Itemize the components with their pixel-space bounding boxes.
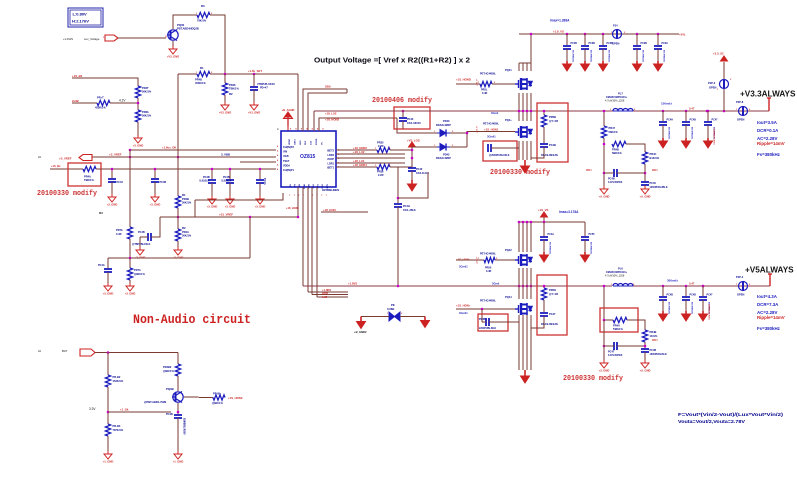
wire 1.8v_SET to IC pin: [297, 74, 299, 131]
svg-text:LDR2: LDR2: [327, 154, 334, 157]
svg-text:+1S_HON2: +1S_HON2: [228, 396, 243, 400]
svg-text:0.4R: 0.4R: [486, 270, 491, 273]
svg-text:PET.4C44D6L: PET.4C44D6L: [480, 253, 496, 256]
svg-text:B2MBLBL/R2.5: B2MBLBL/R2.5: [713, 129, 715, 145]
junction 5 cap PC4B x663: [662, 285, 665, 288]
ground left divider: [134, 135, 142, 143]
svg-text:+18_HON2: +18_HON2: [325, 118, 340, 122]
wire PR5B to PC4B: [543, 127, 545, 143]
svg-text:@BK/1%: @BK/1%: [163, 369, 174, 373]
wire x130 down: [129, 258, 131, 268]
wire stub PC43: [402, 111, 404, 117]
wire Q3B to PR-B4: [184, 396, 213, 399]
svg-text:PR4A: PR4A: [182, 230, 189, 234]
wire stub cap PC3B x585: [584, 34, 586, 45]
wire bus x531 seg1: [530, 63, 532, 71]
junction x130 y258: [129, 257, 132, 260]
power ground cap x658: [654, 61, 663, 71]
wire fuse right: [400, 316, 425, 318]
svg-text:4B 2MBLBL: 4B 2MBLBL: [608, 50, 611, 63]
svg-text:PR7b: PR7b: [116, 228, 123, 232]
ground PR-B3: [104, 451, 112, 459]
wire 3.3 fb mid: [603, 138, 605, 186]
wire rail +1.8 mid: [314, 110, 613, 112]
wire gate4 cap b: [489, 321, 519, 323]
wire y200 from IC: [195, 193, 283, 200]
capacitor PC4B2: [174, 415, 182, 418]
svg-text:56K/1%: 56K/1%: [142, 90, 152, 94]
wire y169 left: [50, 168, 83, 170]
wire fuse left: [361, 316, 389, 318]
svg-text:ISET2: ISET2: [327, 150, 335, 153]
svg-text:VIN: VIN: [283, 151, 287, 154]
power ground 5 cap x703: [699, 311, 708, 321]
junction PC4B b: [211, 168, 214, 171]
wire x398 lower: [397, 207, 399, 286]
wire PR-2b to ground: [137, 122, 139, 135]
wire rail +5 feed: [519, 221, 585, 223]
svg-text:R3: R3: [201, 4, 205, 8]
capacitor PC47 5rail x703: [699, 297, 707, 300]
svg-text:PC4H: PC4H: [403, 205, 410, 208]
svg-text:Ripple=14mV: Ripple=14mV: [757, 315, 785, 320]
wire bus LX: [317, 296, 348, 298]
wire stub 5 cap PC4B x686: [685, 286, 687, 296]
svg-text:EN: EN: [290, 184, 292, 187]
wire net +1.8vs_OK: [130, 149, 276, 151]
wire cap PC3B x585 down: [584, 49, 586, 61]
resistor PR7h: [127, 268, 132, 280]
svg-text:+A_GND: +A_GND: [640, 195, 651, 199]
svg-text:PR35: PR35: [377, 141, 384, 145]
wire RC upper stub: [543, 111, 545, 115]
svg-text:0.47: 0.47: [689, 107, 695, 111]
wire 3.3 cap PC4B down: [685, 125, 687, 138]
svg-text:4B 2MBLBL: 4B 2MBLBL: [691, 127, 694, 140]
wire PC4A b to ground: [259, 183, 261, 196]
resistor divider R2: [175, 229, 180, 241]
wire gate2: [467, 131, 515, 133]
svg-text:4.7uH/10%_1208: 4.7uH/10%_1208: [605, 99, 625, 102]
annotation box 20100406: [394, 107, 430, 129]
junction rail cap PC4B x567: [566, 33, 569, 36]
resistor PR4T: [135, 86, 140, 98]
wire stub cap PC3B x637: [636, 34, 638, 45]
wire fbh b: [617, 172, 645, 174]
svg-text:+18_HDR1: +18_HDR1: [353, 163, 367, 167]
wire 5 fb top: [603, 286, 605, 320]
wire stub cap PC4A 5feed: [543, 222, 545, 236]
svg-text:+1.8VS: +1.8VS: [348, 282, 357, 286]
wire 5 cap PC47 x703 down: [702, 300, 704, 311]
svg-text:PR46: PR46: [229, 83, 236, 87]
wire bus5 x527 seg2: [526, 268, 528, 299]
capacitor PC4H inline: [394, 204, 402, 207]
svg-text:2200PUBLISLK: 2200PUBLISLK: [479, 327, 497, 330]
wire gate3 a: [456, 259, 484, 261]
junction fb cap: [644, 172, 647, 175]
wire to cap PD47: [253, 74, 255, 86]
wire vertical x250: [249, 217, 251, 258]
wire stub cap PC4A b: [259, 169, 261, 179]
svg-text:PC4C: PC4C: [650, 182, 657, 185]
wire fb gnd b: [644, 185, 646, 186]
svg-text:PC4B: PC4B: [479, 318, 486, 321]
svg-text:+3_GND: +3_GND: [225, 205, 236, 209]
svg-text:PR7h: PR7h: [134, 268, 141, 272]
power ground cap PC4A 5feed: [540, 252, 549, 262]
svg-text:PQ44: PQ44: [505, 295, 512, 299]
svg-text:2A: 2A: [38, 156, 41, 159]
wire cap sense gnd stub: [139, 237, 141, 247]
ground PR7h: [126, 283, 134, 291]
svg-text:R2: R2: [182, 226, 186, 230]
svg-text:PR4B: PR4B: [650, 330, 657, 334]
wire VS_LOG column: [411, 147, 413, 167]
resistor PR30 2.2R: [377, 147, 390, 152]
wire fb5 a: [604, 319, 613, 321]
svg-text:OPEN: OPEN: [737, 293, 744, 297]
capacitor PD47: [250, 87, 258, 90]
wire bus x531 seg3: [530, 141, 532, 160]
power tap +V5ALWAYS: [768, 274, 772, 286]
wire IC right row 5 a: [336, 166, 377, 168]
wire bus x523 seg2: [522, 93, 524, 121]
transistor PQ43: [515, 126, 532, 138]
svg-text:PJ4: PJ4: [613, 24, 618, 28]
svg-text:4B 2MBLBL: 4B 2MBLBL: [668, 127, 671, 140]
resistor PR-T: [97, 100, 110, 105]
junction PC43: [111, 168, 114, 171]
wire IC right row 3: [336, 157, 405, 159]
wire stub 5 cap PC4B x663: [662, 286, 664, 296]
wire TSET row: [240, 161, 276, 163]
svg-text:Lev_Voltage: Lev_Voltage: [84, 37, 100, 41]
power ground cap x603: [599, 61, 608, 71]
junction row3: [411, 157, 414, 160]
svg-text:+V3.3ALWAYS: +V3.3ALWAYS: [740, 90, 796, 99]
capacitor PC4B: [151, 179, 159, 182]
wire gate1 b: [492, 83, 515, 85]
junction 3.3 fb: [603, 110, 606, 113]
svg-text:F=Vout*(Vin/2-Vout)/(Lux*Vout*: F=Vout*(Vin/2-Vout)/(Lux*Vout*Vin/2): [678, 412, 783, 418]
wire x108 to PR-B2: [107, 353, 109, 376]
svg-text:+18_LX2: +18_LX2: [353, 150, 365, 154]
wire IC right row 4: [336, 162, 405, 164]
annotation box around PR4A: [68, 163, 101, 186]
svg-text:0.08E: 0.08E: [387, 307, 394, 311]
svg-text:VDDP: VDDP: [289, 138, 291, 145]
wire arrow to rail5: [543, 217, 545, 222]
wire diode PD42 out: [450, 146, 467, 148]
svg-text:Output Voltage =[ Vref x R2((R: Output Voltage =[ Vref x R2((R1+R2) ] x …: [314, 58, 470, 65]
capacitor PC4C fb5: [641, 349, 649, 352]
wire y258: [108, 257, 250, 259]
ferrite bead PJP-0: [720, 80, 729, 89]
junction x130 y157: [129, 156, 132, 159]
svg-text:3Gmil1: 3Gmil1: [459, 265, 468, 269]
ferrite bead PJ4: [613, 30, 622, 39]
svg-text:20100330 modify: 20100330 modify: [563, 375, 623, 383]
wire 3.3 cap PC4H down: [662, 125, 664, 138]
svg-text:PC4B: PC4B: [650, 349, 657, 352]
junction 5 cap PC47 x703: [702, 285, 705, 288]
wire R3 to node 1.8v_SET: [210, 15, 225, 74]
svg-text:30K/1%: 30K/1%: [182, 201, 192, 205]
svg-text:3_VBB: 3_VBB: [221, 153, 230, 157]
wire bus x519 seg1: [518, 63, 520, 71]
capacitor PC4B fbh: [614, 169, 617, 177]
wire cap sense left: [140, 236, 148, 238]
wire bus5 x523 seg1: [522, 222, 524, 252]
junction row1: [411, 149, 414, 152]
wire PR4B2 to Q3B: [177, 376, 179, 391]
svg-text:5BK/1%: 5BK/1%: [612, 151, 622, 155]
dual diode PD40: [437, 130, 450, 137]
svg-text:2B0: 2B0: [325, 85, 331, 89]
wire IC pin to rail 1.8: [313, 111, 315, 131]
wire x178 to PR4B2: [177, 353, 179, 365]
wire Q30 emitter to ground: [172, 41, 174, 46]
capacitor PC47 3.3rail: [704, 122, 712, 125]
svg-text:@BK/1%: @BK/1%: [134, 272, 145, 276]
power ground fuse left: [357, 317, 366, 329]
wire stub cap PC3A x658: [657, 34, 659, 45]
svg-text:10UL.3BLK: 10UL.3BLK: [403, 209, 416, 212]
svg-text:R2: R2: [229, 92, 233, 96]
junction bus5 x531 rail: [530, 285, 533, 288]
resistor PR-B3: [105, 424, 110, 436]
svg-text:PR4A: PR4A: [613, 324, 620, 328]
resistor PR34 2.2R: [377, 164, 390, 169]
wire bus5 x527 seg1: [526, 222, 528, 252]
power ground cap PC55 5feed: [581, 252, 590, 262]
wire IC bottom pin 2: [302, 187, 304, 286]
wire cap PC3A x658 down: [657, 49, 659, 61]
ferrite bead PJP-8: [739, 107, 748, 116]
svg-text:PR36: PR36: [377, 170, 384, 174]
svg-text:DDA3L4M4P: DDA3L4M4P: [436, 124, 451, 127]
capacitor PC4C fb: [641, 182, 649, 185]
wire net +S1_VREF: [160, 216, 299, 218]
wire bus x531 seg2: [530, 93, 532, 121]
svg-text:1000PUBL3BLK: 1000PUBL3BLK: [650, 186, 668, 189]
wire rail +5VIN top: [519, 33, 679, 35]
svg-text:PBT.ABD4HDQ2B: PBT.ABD4HDQ2B: [177, 27, 199, 31]
ground 3.3 fb b: [641, 186, 649, 194]
wire cap PC4B x567 down: [566, 49, 568, 61]
svg-text:PC47: PC47: [712, 119, 719, 122]
junction cap PD47: [253, 73, 256, 76]
svg-text:3Gmil1: 3Gmil1: [487, 135, 496, 139]
wire PR-B2 to PR-B3: [107, 387, 109, 424]
junction RC lower: [543, 285, 546, 288]
svg-text:OK±: OK±: [586, 168, 592, 172]
capacitor PC4H 3.3rail: [659, 122, 667, 125]
ground below PQ30: [169, 46, 177, 54]
annotation box 5 fb: [600, 308, 638, 332]
svg-text:UG1: UG1: [322, 183, 324, 188]
wire bus5 x531 seg1: [530, 222, 532, 252]
power ground 3.3 cap PC4H: [659, 138, 668, 148]
svg-text:PR47: PR47: [609, 126, 616, 130]
junction bus5 x523 top: [522, 221, 525, 224]
svg-text:TBK/1%: TBK/1%: [613, 327, 623, 331]
svg-text:PC47: PC47: [707, 294, 714, 297]
power ground 5 cap x663: [659, 311, 668, 321]
svg-text:+1S_Bx: +1S_Bx: [51, 164, 61, 168]
svg-text:PR+T: PR+T: [97, 96, 104, 100]
svg-text:PC47: PC47: [549, 312, 556, 316]
junction 3.3 fb mid: [603, 143, 606, 146]
svg-text:+S_VREF: +S_VREF: [109, 153, 122, 157]
wire PR-T to node: [110, 102, 138, 104]
svg-text:4B 2MBLBL: 4B 2MBLBL: [549, 242, 552, 255]
svg-text:4B 2MBLBL: 4B 2MBLBL: [663, 50, 666, 63]
junction bus5 x531 top: [530, 221, 533, 224]
resistor PR4B fb5: [642, 330, 647, 342]
junction PC43 rail: [402, 110, 405, 113]
transistor PQ3B: [172, 392, 183, 403]
junction bus x527 rail: [526, 110, 529, 113]
wire stub 5 cap PC47 x703: [702, 286, 704, 296]
svg-text:20100330 modify: 20100330 modify: [37, 190, 97, 198]
svg-text:+V3_GND: +V3_GND: [167, 55, 179, 59]
resistor PR4A: [83, 166, 96, 171]
svg-text:300mil±: 300mil±: [667, 279, 678, 283]
resistor R3: [197, 12, 210, 17]
wire gate4: [456, 308, 515, 310]
svg-text:OK±: OK±: [652, 168, 658, 172]
junction fb5h: [603, 345, 606, 348]
svg-text:@Y=1R: @Y=1R: [549, 292, 558, 296]
wire 1.8v_SET: [210, 73, 298, 75]
svg-text:PC55: PC55: [589, 233, 596, 236]
wire PR4Bfb5 down: [644, 342, 646, 348]
capacitor PC4B sense: [148, 233, 151, 241]
junction bus5 x519 rail: [518, 285, 521, 288]
junction 3.3 fb cap: [706, 110, 709, 113]
wire PC47B to bus: [531, 316, 544, 328]
junction bus5 x523 rail: [522, 285, 525, 288]
svg-text:4B 2MBLBL: 4B 2MBLBL: [572, 50, 575, 63]
svg-text:OK±: OK±: [652, 338, 658, 342]
svg-text:OZCRBLINEN: OZCRBLINEN: [322, 188, 339, 192]
svg-text:+1_GND: +1_GND: [173, 460, 184, 464]
wire vertical x130 b: [129, 239, 131, 258]
wire stub cap PC55 5feed: [584, 222, 586, 236]
wire fb to PR4C: [626, 144, 645, 152]
wire bus x519 seg2: [518, 93, 520, 121]
svg-text:+1S_HON+: +1S_HON+: [456, 304, 471, 308]
svg-text:+1S_VS: +1S_VS: [538, 208, 548, 212]
wire 5 cap PC4B x686 down: [685, 300, 687, 311]
wire PC4B2 to ground: [177, 418, 179, 451]
wire PC4x to gnd: [107, 272, 109, 283]
wire stub cap PC3B x603: [602, 34, 604, 45]
power ground PC40: [408, 180, 417, 191]
junction pin1 S1VREF: [297, 216, 300, 219]
wire bus5 x523 seg2: [522, 268, 524, 299]
svg-text:0.4R: 0.4R: [116, 232, 122, 236]
capacitor PC3A x658: [654, 46, 662, 49]
svg-text:PR4C: PR4C: [650, 152, 657, 156]
svg-text:+1S_HOND: +1S_HOND: [456, 78, 471, 82]
capacitor PC4B x567: [563, 46, 571, 49]
svg-text:PR4B: PR4B: [182, 197, 189, 201]
wire RC lower stub: [543, 286, 545, 288]
transistor PQ42: [515, 254, 532, 266]
wire PC4B to ground: [154, 182, 156, 194]
svg-text:+1S_B2: +1S_B2: [72, 74, 83, 78]
svg-text:PGD: PGD: [304, 184, 306, 189]
ferrite bead PJP-4: [739, 282, 748, 291]
svg-text:+3_GND: +3_GND: [103, 292, 114, 296]
capacitor PC4x upper: [488, 144, 491, 152]
wire divider mid: [177, 208, 179, 229]
wire bus5 x519 seg1: [518, 222, 520, 252]
inductor PL6: [613, 284, 633, 287]
junction 3.3V sense: [107, 411, 110, 414]
svg-text:@PBT.ABD4-702B: @PBT.ABD4-702B: [144, 400, 166, 404]
svg-text:+V3_GND: +V3_GND: [248, 111, 260, 115]
capacitor PC4B b: [226, 180, 234, 183]
wire x195 stub: [194, 200, 196, 217]
svg-text:+3_GND: +3_GND: [150, 203, 161, 207]
wire stub cap PC4B b: [211, 169, 213, 179]
dual diode PD42: [437, 144, 450, 151]
svg-text:PC40: PC40: [416, 168, 423, 171]
junction 3.3 cap PC4B: [685, 110, 688, 113]
svg-text:TSET: TSET: [283, 160, 290, 163]
junction RC upper: [543, 110, 546, 113]
wire x108 down: [107, 258, 109, 268]
wire bus5 x531 seg3: [530, 315, 532, 370]
svg-text:10UL/16V4X: 10UL/16V4X: [407, 122, 421, 125]
junction PC4B b: [229, 168, 232, 171]
svg-text:2A: 2A: [38, 350, 41, 353]
wire cap sense right: [151, 217, 160, 237]
svg-text:PC3A: PC3A: [662, 42, 669, 45]
svg-text:CH(IN)P1: CH(IN)P1: [283, 169, 294, 172]
junction bus5 x527 top: [526, 221, 529, 224]
wire PJP-0 up: [723, 62, 725, 79]
annotation box RC lower: [537, 275, 567, 335]
svg-text:OPEN: OPEN: [737, 118, 744, 122]
svg-text:3Gmil1: 3Gmil1: [459, 311, 468, 315]
power ground fuse right: [421, 317, 430, 328]
svg-text:+3_GND: +3_GND: [255, 205, 266, 209]
junction BAT x108: [107, 351, 110, 354]
svg-text:B1K/1%: B1K/1%: [650, 156, 660, 160]
svg-text:+18_HON-: +18_HON-: [286, 206, 299, 210]
annotation box RC upper: [537, 103, 568, 162]
wire PC4B b to ground: [229, 183, 231, 196]
wire rail +5 right: [633, 285, 770, 287]
annotation box cap lower: [478, 314, 508, 331]
wire bus5 x523 seg3: [522, 315, 524, 370]
svg-text:PC3B: PC3B: [589, 42, 596, 45]
svg-text:Vouta=Vout/2,Vouta=2.78V: Vouta=Vout/2,Vouta=2.78V: [678, 419, 746, 425]
svg-text:PD=47: PD=47: [260, 87, 268, 90]
svg-text:UG2: UG2: [300, 140, 302, 145]
wire cap upper to bus: [491, 147, 519, 149]
wire bus5 x519 seg2: [518, 268, 520, 299]
svg-text:2.2R: 2.2R: [378, 144, 384, 148]
svg-text:PR4A: PR4A: [84, 175, 91, 179]
svg-text:ISET1: ISET1: [327, 167, 335, 170]
svg-text:PGND: PGND: [316, 138, 318, 145]
